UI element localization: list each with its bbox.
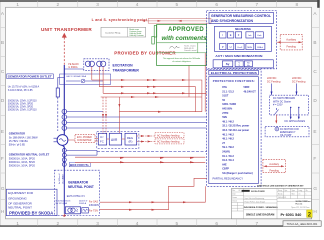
svg-text:3: 3 [96, 221, 99, 226]
svg-text:AVR: AVR [111, 138, 118, 142]
svg-text:SKODA POWER: SKODA POWER [251, 190, 265, 193]
svg-text:L and S. synchronizing poi: L and S. synchronizing point [92, 18, 148, 22]
svg-text:E: E [1, 129, 4, 134]
page top dark edge [0, 0, 320, 2]
svg-text:02: 02 [239, 190, 241, 192]
electrical protections panel (outer dashed) [207, 70, 262, 187]
svg-text:SINGLE LINE DIAGRAM: SINGLE LINE DIAGRAM [246, 213, 274, 216]
svg-text:7: 7 [255, 221, 258, 226]
auxiliary feeding box (top right) [280, 34, 302, 50]
neutral service wire 1 [100, 186, 205, 202]
svg-text:NEUTRAL POINT: NEUTRAL POINT [68, 185, 94, 189]
neutral point enclosure (dashed) [54, 170, 99, 215]
svg-text:4: 4 [136, 2, 139, 7]
svg-text:E: E [230, 33, 232, 37]
green marker beside stamp [154, 26, 157, 38]
svg-text:AND SYNCHRONIZATION: AND SYNCHRONIZATION [211, 19, 254, 23]
svg-text:1: 1 [306, 194, 307, 196]
excitation cubicle enclosure (dashed) [97, 131, 139, 148]
current transformer CT0 (rectangle on VT branch) [56, 88, 59, 97]
svg-text:240/√3 V: 240/√3 V [79, 199, 88, 202]
excitation transformer T2 winding b [100, 61, 105, 66]
svg-text:AC Auxiliary feeding: AC Auxiliary feeding [157, 135, 180, 138]
meter Uab [255, 32, 263, 38]
VT branch line [58, 78, 65, 89]
protection function list [222, 86, 256, 175]
svg-text:81.3 / 81.4: 81.3 / 81.4 [222, 159, 234, 162]
CT4 [62, 126, 67, 131]
page top-right dark corner mark [317, 0, 320, 8]
svg-text:S 160.3 MVA, PF 0.85: S 160.3 MVA, PF 0.85 [8, 89, 33, 92]
svg-text:MAIN SINGLE LINE DIAGRAM OF GE: MAIN SINGLE LINE DIAGRAM OF GENERATOR SE… [257, 184, 304, 187]
generator breaker cubicle [60, 74, 111, 84]
svg-text:Feeding: Feeding [270, 168, 280, 172]
svg-text:GROUNDING: GROUNDING [8, 196, 27, 200]
svg-text:5: 5 [175, 221, 178, 226]
equipment for grounding box [6, 189, 57, 216]
svg-text:PROTECTION FUNCTIONS:: PROTECTION FUNCTIONS: [213, 79, 255, 83]
svg-text:6: 6 [215, 221, 218, 226]
DC motor feeder (red) [275, 115, 277, 123]
field breaker box U< [98, 133, 106, 145]
svg-text:Feeding: Feeding [287, 44, 297, 48]
svg-text:Sn 31.5 kVA: Sn 31.5 kVA [56, 202, 68, 205]
svg-text:CONVERTER: CONVERTER [77, 140, 92, 142]
svg-text:EXC. POWER: EXC. POWER [77, 137, 92, 139]
CT8 [62, 162, 66, 166]
svg-text:5: 5 [175, 2, 178, 7]
svg-text:30000/1A, 10VA, 5P20: 30000/1A, 10VA, 5P20 [9, 164, 36, 168]
meter F [235, 32, 241, 38]
svg-text:G: G [313, 186, 317, 191]
neutral service wire 2 [100, 178, 207, 209]
AC auxiliary feeding label 1 [155, 133, 184, 138]
generator G1 [57, 135, 68, 146]
exc power converter (dashed red box) [75, 134, 95, 142]
meter CosF [235, 43, 244, 49]
svg-text:Hz: Hz [247, 65, 250, 67]
CT group below generator: CT5 [62, 148, 66, 152]
svg-text:4x 240mm2: 4x 240mm2 [59, 173, 61, 184]
unit transformer dashed feeder with up arrow [63, 38, 65, 66]
excitation secondary drops [92, 67, 103, 94]
svg-text:TKS-0-AA_-EEA-SKO-001: TKS-0-AA_-EEA-SKO-001 [287, 222, 318, 226]
svg-text:7: 7 [255, 2, 258, 7]
svg-text:ELPS 15750/√3 V: ELPS 15750/√3 V [67, 195, 86, 198]
svg-text:30000/1A, 10VA, 5P20: 30000/1A, 10VA, 5P20 [9, 156, 36, 160]
meter I [220, 32, 226, 38]
svg-text:(R): (R) [129, 140, 133, 144]
approval stamp [157, 25, 207, 66]
svg-text:Type: Type [292, 190, 296, 192]
DC switchboard feeders [291, 108, 299, 115]
AVR unit [109, 133, 121, 145]
svg-text:30000/1A, 10VA, 5P20: 30000/1A, 10VA, 5P20 [9, 160, 36, 164]
auxiliary feeding box (bottom right) [263, 160, 286, 173]
svg-text:Sn 188.6MVA / 160.3MW: Sn 188.6MVA / 160.3MW [9, 135, 38, 139]
svg-text:Resp.: Resp. [278, 190, 283, 192]
svg-text:PE 6kA03: PE 6kA03 [68, 63, 79, 66]
svg-text:Customer Resp.: Customer Resp. [105, 31, 121, 34]
svg-text:B: B [1, 40, 4, 45]
svg-text:Tylova 1/57, 301 28 Plzen: Tylova 1/57, 301 28 Plzen [291, 207, 309, 209]
synchronization device row box [213, 60, 273, 68]
svg-text:59N: 59N [222, 116, 227, 119]
title block frame [232, 188, 312, 218]
svg-text:87G: 87G [222, 86, 227, 89]
meter MVArh [255, 43, 265, 49]
svg-text:64R1 / 64R2: 64R1 / 64R2 [222, 103, 236, 106]
svg-text:AC Auxiliary feeding: AC Auxiliary feeding [157, 141, 180, 144]
svg-text:49.1 / 49.2: 49.1 / 49.2 [222, 138, 234, 141]
svg-text:Sy: Sy [226, 62, 230, 66]
svg-text:of contract obligations: of contract obligations [172, 60, 190, 63]
stamp signature [170, 46, 180, 49]
svg-text:Drawn: Drawn [232, 197, 237, 199]
svg-text:This approval does not release: This approval does not release the S/Ven… [163, 57, 201, 60]
svg-text:4: 4 [136, 221, 139, 226]
svg-text:245/400V: 245/400V [89, 204, 100, 207]
panel header [209, 13, 274, 24]
meter P [220, 43, 226, 49]
svg-text:Auxiliary: Auxiliary [269, 162, 280, 166]
svg-text:2: 2 [56, 2, 59, 7]
generator stator leads [54, 138, 57, 142]
excitation rectifier feed (dashed red verticals) [103, 97, 106, 134]
svg-text:TRANSFORMER: TRANSFORMER [113, 69, 140, 73]
svg-text:For TSN: For TSN [89, 210, 98, 213]
generator main bus (upper) [63, 65, 65, 135]
svg-text:15.75kV / 6915A: 15.75kV / 6915A [9, 139, 28, 143]
svg-text:64E: 64E [222, 163, 227, 166]
svg-text:49.1/49 GT: 49.1/49 GT [244, 90, 257, 93]
excitation transformer enclosure [84, 59, 109, 71]
svg-text:GENERATOR: GENERATOR [68, 181, 89, 185]
generator measuring control panel (outer dashed) [207, 11, 277, 69]
excitation field wires (red) [92, 80, 207, 112]
excitation transformer T1 winding a [85, 61, 90, 66]
AVR measurement drop [118, 97, 120, 133]
svg-text:PROVIDED BY SKODA: PROVIDED BY SKODA [9, 211, 53, 216]
AC auxiliary feeding label 2 [155, 139, 184, 144]
ruler numbers top [16, 2, 298, 7]
ruler numbers bottom [16, 221, 258, 226]
svg-text:32.1 / 32.2G Rev. power: 32.1 / 32.2G Rev. power [222, 125, 249, 128]
svg-text:Pr 6001 540: Pr 6001 540 [281, 213, 302, 217]
REG to aux feeding wires [137, 136, 155, 142]
svg-text:BOX FOR ITs: BOX FOR ITs [70, 163, 89, 167]
svg-text:INDONESIA POWER - SEMARANG: INDONESIA POWER - SEMARANG [244, 206, 278, 209]
svg-text:F: F [313, 156, 316, 161]
auxiliary feeding wire [277, 41, 302, 43]
meter Iab [246, 32, 254, 38]
red arrowheads on field wires [121, 79, 186, 113]
svg-text:Cable by Customer: Cable by Customer [129, 34, 144, 37]
svg-text:In 6300A: In 6300A [68, 66, 78, 69]
CT7 [62, 158, 66, 162]
CT secondary wires to collector [66, 150, 206, 155]
svg-text:UNIT TRANSFORMER: UNIT TRANSFORMER [41, 27, 92, 32]
protections header [209, 70, 258, 75]
svg-text:8: 8 [295, 2, 298, 7]
auxiliary feeding wire (bottom) [264, 165, 285, 167]
CT group above generator: CT1 [62, 109, 67, 114]
svg-text:Consult. verval: Consult. verval [184, 49, 197, 52]
svg-text:OIL PUMP: OIL PUMP [280, 134, 292, 137]
svg-text:81.1 / 81.2: 81.1 / 81.2 [222, 155, 234, 158]
svg-text:50BF: 50BF [244, 86, 250, 89]
ruler row ticks left [1, 28, 6, 200]
svg-text:MWh: MWh [247, 47, 253, 49]
svg-text:ELECTRICAL PROTECTIONS: ELECTRICAL PROTECTIONS [211, 71, 257, 75]
svg-text:3: 3 [96, 2, 99, 7]
svg-text:51GT: 51GT [222, 95, 229, 98]
svg-text:Plzen CZ: Plzen CZ [296, 203, 303, 205]
generator data block [9, 132, 38, 147]
svg-text:en: en [299, 194, 301, 196]
ruler letters right [313, 11, 317, 214]
svg-text:GENERATOR: GENERATOR [9, 132, 25, 136]
svg-text:with comments: with comments [161, 35, 207, 42]
svg-text:21.1 / 21.2: 21.1 / 21.2 [222, 90, 234, 93]
meter E [228, 32, 234, 38]
excitation transformer T2 winding a [97, 61, 102, 66]
meter U [228, 43, 234, 49]
responsibility table [101, 27, 146, 37]
neutral bus into enclosure [63, 170, 65, 205]
svg-text:2: 2 [56, 221, 59, 226]
svg-text:30000/1A, 15VA, 0.2FS10: 30000/1A, 15VA, 0.2FS10 [8, 109, 37, 112]
revision table text [232, 189, 308, 203]
svg-text:MVArh: MVArh [257, 46, 263, 49]
protections body [209, 77, 258, 184]
svg-text:GENERATOR NEUTRAL OUTLET: GENERATOR NEUTRAL OUTLET [9, 152, 50, 156]
svg-text:CosF: CosF [237, 47, 243, 49]
generator lower bus [63, 145, 65, 170]
DC feeder drops [272, 84, 297, 96]
page bottom dark edge [0, 225, 283, 227]
svg-text:P: P [222, 45, 224, 49]
svg-text:Novak: Novak [278, 194, 283, 196]
svg-text:46.1 / 46.2: 46.1 / 46.2 [222, 133, 234, 136]
revision flag 2 [307, 210, 312, 217]
sync device V [235, 61, 243, 67]
DC switchboard (dashed) [270, 95, 309, 115]
arrowheads bottom wires [129, 201, 187, 211]
ruler column ticks bottom [38, 219, 237, 226]
svg-text:F: F [1, 156, 4, 161]
svg-text:AUT / MAN SINCRONIZATION: AUT / MAN SINCRONIZATION [215, 54, 262, 58]
svg-text:Check: Check [232, 201, 237, 203]
CT2 [62, 115, 67, 120]
svg-text:S 15750±5%/√3: S 15750±5%/√3 [56, 199, 72, 202]
sync wire drop behind stamp [189, 53, 205, 112]
svg-text:EQUIPMENT FOR: EQUIPMENT FOR [8, 191, 34, 195]
CT3 [62, 120, 67, 125]
svg-text:NEUTRAL POINT: NEUTRAL POINT [8, 206, 32, 210]
svg-text:59.1 / 59.2: 59.1 / 59.2 [222, 146, 234, 149]
svg-text:APPROVED: APPROVED [168, 27, 204, 33]
svg-text:DC Feeding: DC Feeding [267, 80, 281, 83]
neutral ground marker [63, 214, 66, 217]
svg-text:500/5 A: 500/5 A [79, 202, 87, 205]
svg-text:Lang.: Lang. [299, 190, 304, 192]
svg-text:1: 1 [16, 221, 19, 226]
wires generator to converter chain [68, 139, 125, 142]
svg-text:H: H [313, 209, 316, 214]
generator power outlet data block [7, 74, 54, 79]
neutral loading resistor [82, 208, 89, 213]
motor symbol [275, 127, 279, 131]
excitation transformer T1 winding b [89, 61, 94, 66]
REG unit [125, 133, 137, 145]
svg-text:SG (Danger / push button): SG (Danger / push button) [222, 172, 253, 175]
svg-text:Auxiliary: Auxiliary [286, 37, 297, 41]
svg-text:HEC 8 / 6300A / 36kA: HEC 8 / 6300A / 36kA [67, 75, 87, 78]
ruler letters left [1, 11, 5, 214]
sync device Hz [244, 61, 252, 67]
file reference tab [283, 221, 321, 227]
ruler row ticks right [312, 28, 320, 200]
svg-text:49.1 / 49.2: 49.1 / 49.2 [222, 120, 234, 123]
svg-text:32.3 / 32.4G Low power: 32.3 / 32.4G Low power [222, 129, 249, 132]
ruler column ticks top [38, 1, 277, 7]
svg-text:PARTIAL REDUNDANCY: PARTIAL REDUNDANCY [213, 176, 244, 180]
svg-text:GENERATOR MEASURING CONTROL: GENERATOR MEASURING CONTROL [211, 14, 271, 18]
DC appliances arrows [291, 115, 299, 118]
svg-text:GENERATOR POWER OUTLET: GENERATOR POWER OUTLET [8, 75, 52, 79]
synchronizing link box [148, 19, 211, 24]
svg-text:B: B [313, 40, 316, 45]
svg-text:27TN: 27TN [222, 112, 228, 115]
svg-text:DC APPLIANCES: DC APPLIANCES [285, 119, 306, 123]
svg-text:6: 6 [215, 2, 218, 7]
svg-text:Rev: Rev [232, 190, 235, 192]
svg-text:DC Feeding: DC Feeding [292, 80, 306, 83]
DC motor for emergency oil pump (dashed) [265, 126, 309, 136]
svg-text:24(V/f): 24(V/f) [222, 151, 230, 154]
cable note (vertical) [59, 173, 64, 184]
DC switchboard breaker [275, 110, 279, 115]
generator neutral outlet data block [9, 152, 50, 167]
svg-text:2009-02-25: 2009-02-25 [278, 197, 286, 199]
svg-text:G: G [1, 186, 5, 191]
skoda address [291, 200, 311, 209]
svg-text:H: H [1, 209, 4, 214]
svg-text:CBFP: CBFP [222, 168, 229, 171]
neutral grounding transformer [65, 207, 80, 214]
wire bus to excitation transformer [64, 68, 84, 70]
heater supply wires into protections panel [75, 157, 205, 163]
measuring wires from CT1-CT4 to panels [67, 112, 207, 129]
sync device Sy [222, 61, 232, 67]
svg-text:# = 220V: # = 220V [273, 104, 283, 107]
synchronizing link wire [145, 20, 206, 22]
svg-text:FC: FC [100, 139, 104, 143]
svg-text:EXCITATION: EXCITATION [113, 64, 134, 68]
measuring box [214, 26, 271, 51]
svg-text:64S 95%: 64S 95% [222, 108, 233, 111]
svg-text:1: 1 [16, 2, 19, 7]
svg-text:U: U [230, 45, 232, 49]
svg-text:E: E [313, 129, 316, 134]
meter MWh [246, 43, 254, 49]
CT6 [62, 153, 66, 157]
skoda logo bar [242, 190, 250, 192]
svg-text:50Hz / pf 0.85: 50Hz / pf 0.85 [9, 143, 26, 147]
svg-text:MEASURING: MEASURING [235, 27, 251, 31]
